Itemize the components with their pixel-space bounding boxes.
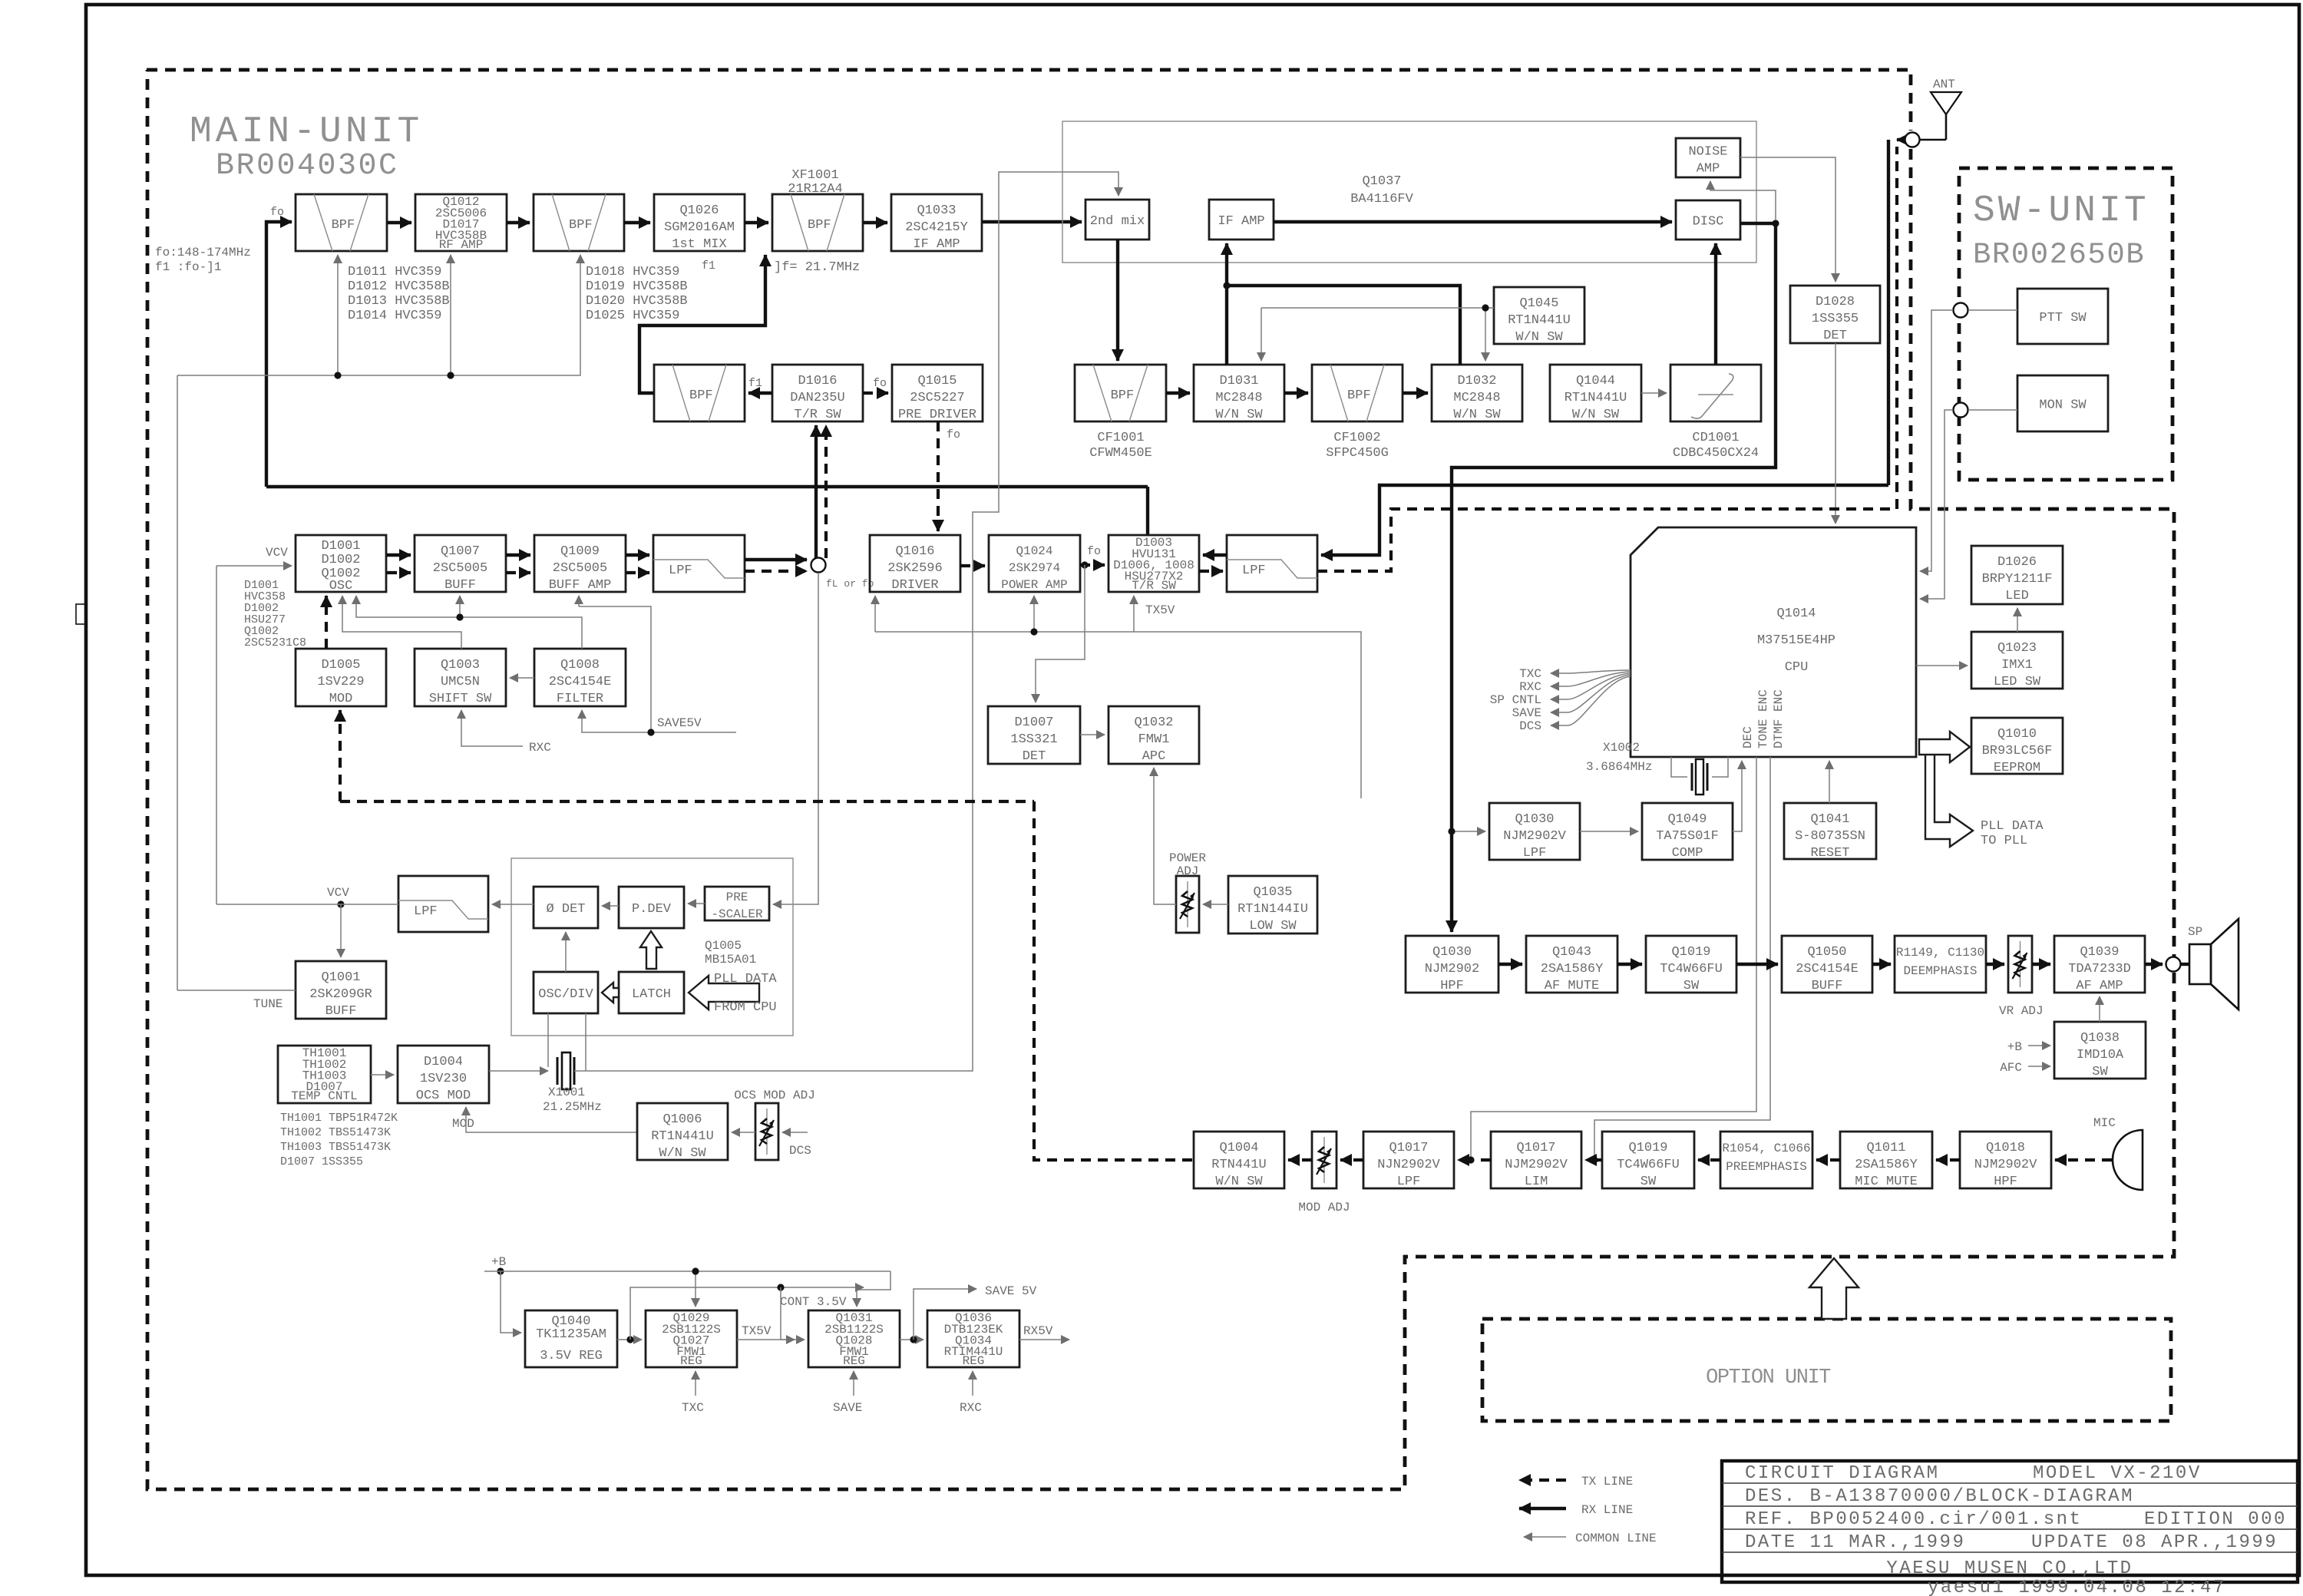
svg-text:AF MUTE: AF MUTE [1545,979,1599,993]
wire IF AMP to DISC [1274,220,1672,223]
junction [1081,561,1088,568]
svg-text:IF AMP: IF AMP [913,237,960,252]
wire ANT RX line [1321,485,1888,555]
wire save5v to Q1009 [578,596,580,606]
svg-text:CFWM450E: CFWM450E [1089,446,1152,461]
svg-text:fo: fo [947,428,960,441]
svg-text:TXC: TXC [1519,667,1541,681]
node [1905,133,1920,147]
svg-text:f1: f1 [748,377,762,390]
svg-text:NJM2902V: NJM2902V [1503,829,1566,844]
svg-text:1SV230: 1SV230 [420,1072,467,1086]
wire ANT down [1887,140,1890,485]
latch [619,972,684,1013]
power amplifier Q1024 [989,535,1080,592]
wire TX5V to Q1024 [1033,596,1035,632]
T/R switch D1003 [1109,535,1199,593]
svg-text:Q1038: Q1038 [2080,1031,2120,1046]
svg-text:fo:148-174MHz: fo:148-174MHz [155,246,251,259]
svg-text:REF. BP0052400.cir/001.snt: REF. BP0052400.cir/001.snt [1745,1509,2082,1530]
svg-text:TC4W66FU: TC4W66FU [1660,962,1723,976]
wire Q1040 to Q1029 [617,1339,642,1340]
svg-text:1SS321: 1SS321 [1010,732,1057,747]
svg-text:2SA1586Y: 2SA1586Y [1855,1158,1918,1172]
svg-text:NJM2902: NJM2902 [1425,962,1479,976]
wire reset to CPU [1829,761,1830,803]
svg-text:YAESU MUSEN CO.,LTD: YAESU MUSEN CO.,LTD [1886,1558,2133,1579]
AF mute Q1043 [1526,936,1617,993]
junction [1772,220,1779,226]
wire Q1023 to D1026 [2017,608,2018,632]
legend TX LINE [1519,1479,1566,1482]
wire PTT to CPU [1920,310,1953,571]
svg-text:CPU: CPU [1785,660,1809,675]
svg-text:SW-UNIT: SW-UNIT [1973,190,2149,232]
svg-text:OCS MOD: OCS MOD [416,1089,471,1103]
svg-text:T/R SW: T/R SW [1132,579,1176,593]
svg-text:DCS: DCS [1519,719,1541,733]
svg-text:DES. B-A13870000/BLOCK-DIAGRAM: DES. B-A13870000/BLOCK-DIAGRAM [1745,1486,2134,1507]
svg-text:IMX1: IMX1 [2001,658,2033,672]
antenna ANT [1919,78,1961,140]
wire tune net [177,255,580,375]
IF amplifier Q1033 [891,194,982,252]
wire D1007 to Q1032 [1080,734,1105,735]
potentiometer MOD ADJ [1312,1132,1337,1188]
band-pass filter BPF2 [534,194,624,251]
svg-text:1st MIX: 1st MIX [672,237,726,252]
svg-text:CONT 3.5V: CONT 3.5V [780,1295,847,1309]
svg-text:HPF: HPF [1994,1175,2017,1189]
svg-text:BPF: BPF [1111,388,1135,403]
svg-text:CD1001: CD1001 [1692,431,1739,445]
wire OSCDIV to phase det [565,932,567,972]
svg-text:f1: f1 [702,259,715,273]
svg-text:BR93LC56F: BR93LC56F [1982,744,2053,758]
svg-text:W/N SW: W/N SW [659,1146,706,1161]
svg-text:R1054, C1066: R1054, C1066 [1722,1142,1810,1155]
svg-text:TX5V: TX5V [1145,603,1175,617]
wire RX line to front end [266,485,1148,488]
wire IF tap to D1031 [1225,286,1228,365]
svg-text:2SC4154E: 2SC4154E [1796,962,1859,976]
wire CONT 3.5V [630,1287,864,1340]
TX regulator Q1029 [646,1310,737,1368]
wire pot to Q1004 [1288,1158,1312,1161]
wire Q1045 control [1261,307,1494,309]
svg-text:LPF: LPF [1523,846,1547,861]
wire DISC output [1740,222,1776,225]
junction [337,900,344,907]
svg-text:MOD: MOD [329,692,353,706]
svg-text:W/N SW: W/N SW [1215,1175,1263,1189]
PTT switch [2017,289,2108,344]
svg-text:MIC MUTE: MIC MUTE [1855,1175,1918,1189]
W/N switch Q1006 [637,1103,728,1161]
svg-text:MODEL VX-210V: MODEL VX-210V [2033,1463,2202,1484]
svg-text:2SK2596: 2SK2596 [887,561,942,576]
svg-text:RX LINE: RX LINE [1581,1503,1633,1517]
svg-text:Q1003: Q1003 [441,658,480,672]
svg-text:-SCALER: -SCALER [711,907,763,921]
wire save5v to Q1007 [459,596,461,617]
legend COMMON LINE [1524,1536,1566,1538]
svg-text:REG: REG [963,1354,985,1368]
svg-text:LPF: LPF [1242,563,1266,578]
svg-text:COMP: COMP [1672,846,1703,861]
svg-text:3.5V REG: 3.5V REG [540,1349,603,1363]
wire LIM to LPF [1458,1158,1491,1161]
wire +B to Q1040 [501,1271,521,1333]
svg-text:BPF: BPF [1347,388,1371,403]
hollow bus PLL data [1925,755,1973,847]
svg-text:SP CNTL: SP CNTL [1490,693,1541,707]
mic HPF Q1018 [1960,1132,2051,1189]
title block [1722,1461,2298,1582]
svg-text:2SC4154E: 2SC4154E [549,675,612,689]
wire Q1031 to Q1036 [900,1339,924,1340]
wire 2nd LO to 2nd mix [586,172,1118,1071]
svg-text:BUFF: BUFF [1812,979,1843,993]
svg-text:D1004: D1004 [424,1055,463,1069]
svg-text:+B: +B [491,1255,506,1269]
crystal X1001 [489,1013,586,1089]
wire SAVE 5V out [914,1289,976,1340]
svg-text:R1149, C1130: R1149, C1130 [1896,946,1984,960]
APC Q1032 [1109,706,1199,764]
shift switch Q1003 [415,649,506,706]
wire BPF4 to Q1026 f1 [639,255,765,393]
wire pot to Q1006 [732,1132,755,1133]
wire PDEV to phase det [602,905,619,907]
speaker SP [2188,919,2239,1009]
svg-text:MON SW: MON SW [2039,398,2087,413]
svg-text:CF1002: CF1002 [1333,431,1380,445]
svg-text:Q1009: Q1009 [560,544,600,559]
wire Q1019 to Q1050 [1736,963,1778,966]
hollow arrow to OPTION UNIT [1809,1258,1859,1319]
wire LPF to pot [1340,1158,1363,1161]
wire CONT to Q1031 [781,1287,805,1340]
svg-text:IF AMP: IF AMP [1218,214,1264,229]
svg-text:VCV: VCV [327,886,349,900]
hollow arrow LATCH to PDEV [640,931,662,969]
svg-text:yaesu1 1999.04.08 12:47: yaesu1 1999.04.08 12:47 [1928,1578,2226,1596]
wire prescaler to PDEV [688,903,705,904]
wire Q1007 to Q1009 RX [506,553,530,557]
buffer Q1007 [415,535,506,593]
svg-text:BPF: BPF [689,388,713,403]
wire SAVE up [853,1371,854,1396]
svg-text:UPDATE 08 APR.,1999: UPDATE 08 APR.,1999 [2031,1532,2278,1553]
wire VR to Q1039 [2032,963,2050,966]
svg-text:LATCH: LATCH [632,987,671,1002]
svg-text:REG: REG [680,1354,702,1368]
svg-text:DEC: DEC [1741,726,1755,748]
svg-text:Q1006: Q1006 [662,1112,702,1127]
wire tune to BPF1 [337,255,339,375]
wire Q1024 to D1003 [1080,563,1105,567]
svg-text:DET: DET [1823,329,1847,343]
junction [1591,1156,1598,1163]
junction [1030,628,1037,635]
node [1954,303,1968,318]
svg-text:RX5V: RX5V [1023,1324,1053,1338]
svg-text:RESET: RESET [1810,846,1849,861]
wire 2nd mix to BPF5 [1116,240,1119,361]
svg-text:Q1030: Q1030 [1515,812,1554,827]
svg-text:PLL DATA: PLL DATA [1981,819,2044,834]
svg-text:Q1015: Q1015 [917,374,957,388]
AF mute switch Q1038 [2054,1022,2146,1079]
svg-text:CDBC450CX24: CDBC450CX24 [1673,446,1759,461]
wire +B to Q1029 [695,1271,696,1307]
svg-text:DEEMPHASIS: DEEMPHASIS [1903,964,1977,978]
LED D1026 [1971,546,2063,604]
svg-text:MAIN-UNIT: MAIN-UNIT [190,111,423,153]
driver Q1016 [870,535,960,593]
svg-text:RXC: RXC [529,741,551,755]
svg-text:TEMP CNTL: TEMP CNTL [291,1089,357,1103]
wire node to prescaler [773,573,818,904]
svg-text:UMC5N: UMC5N [441,675,480,689]
svg-text:TONE ENC: TONE ENC [1756,689,1770,748]
wire f0 input to BPF1 [266,222,292,487]
discriminator CD1001 [1670,365,1761,421]
svg-text:SGM2016AM: SGM2016AM [664,220,735,235]
T/R switch D1016 [772,365,863,422]
svg-text:fo: fo [873,377,887,390]
svg-text:XF1001: XF1001 [791,168,838,183]
svg-text:+B: +B [2007,1040,2022,1054]
svg-text:SFPC450G: SFPC450G [1326,446,1389,461]
svg-text:LOW SW: LOW SW [1249,919,1297,933]
reference OSC/DIV [534,972,598,1013]
svg-text:SAVE: SAVE [833,1401,862,1415]
svg-text:FILTER: FILTER [557,692,603,706]
svg-text:2SK2974: 2SK2974 [1009,561,1060,575]
svg-text:f1 :fo-]1: f1 :fo-]1 [155,260,221,274]
svg-text:EDITION 000: EDITION 000 [2144,1509,2287,1530]
svg-text:W/N SW: W/N SW [1572,408,1620,422]
svg-text:COMMON LINE: COMMON LINE [1575,1532,1657,1545]
crystal filter BPF3 XF1001 [772,194,863,251]
wire DISC audio feed [1452,223,1776,932]
wire MOD dashed horizontal [340,800,1034,803]
svg-text:D1032: D1032 [1457,374,1496,388]
wire D1031 to BPF6 [1284,392,1308,395]
wire deemphasis to VR [1986,963,2004,966]
svg-text:LPF: LPF [669,563,692,578]
svg-text:SP: SP [2188,925,2202,939]
svg-text:CIRCUIT DIAGRAM: CIRCUIT DIAGRAM [1745,1463,1940,1484]
wire TX5V to Q1016 [874,596,876,632]
svg-text:DISC: DISC [1693,215,1724,230]
svg-text:BPF: BPF [332,218,355,233]
junction [1482,304,1489,311]
svg-text:Q1024: Q1024 [1016,544,1052,558]
wire DEC line [1471,757,1756,1160]
svg-text:Q1035: Q1035 [1253,885,1292,900]
wire D1016 RX riser [814,425,818,558]
svg-text:POWER: POWER [1169,851,1206,865]
svg-text:PRE: PRE [726,891,748,904]
wire D1028 to CPU [1835,343,1836,524]
W/N switch D1032 [1432,365,1522,422]
reference modulator D1004 [398,1046,489,1103]
wire TX line to ANT [1317,147,1897,571]
wire D1003 to LPF2 TX [1199,570,1223,573]
svg-text:DTMF ENC: DTMF ENC [1772,689,1786,748]
limiter Q1017 [1491,1132,1581,1189]
reset IC Q1041 [1784,803,1876,861]
svg-text:TDA7233D: TDA7233D [2068,962,2131,976]
wire D1016 to BPF4 [748,392,772,395]
VCO oscillator Q1002 [296,535,386,593]
wire fo node to D1007 [1036,565,1085,702]
IF amplifier BA4116FV [1209,200,1274,240]
svg-text:MB15A01: MB15A01 [705,953,756,967]
svg-text:APC: APC [1142,749,1166,764]
svg-text:3.6864MHz: 3.6864MHz [1586,760,1652,774]
svg-text:TO PLL: TO PLL [1981,834,2027,848]
svg-text:Q1001: Q1001 [321,970,360,985]
junction [497,1267,504,1274]
svg-text:Q1004: Q1004 [1219,1141,1258,1155]
svg-text:W/N SW: W/N SW [1515,330,1563,345]
svg-text:D1007 1SS355: D1007 1SS355 [280,1155,363,1168]
wire BPF2 to Q1026 [624,221,650,224]
ceramic filter BPF6 CF1002 [1312,365,1403,421]
audio switch Q1019 [1646,936,1736,993]
wire Q1018 to Q1011 [1936,1158,1960,1161]
pre driver Q1015 [892,365,983,422]
3.5V regulator Q1040 [525,1310,617,1367]
svg-text:S-80735SN: S-80735SN [1795,829,1865,844]
wire Q1011 to preemphasis [1816,1158,1840,1161]
wire IF tap to D1032 [1227,286,1460,365]
svg-text:NJN2902V: NJN2902V [1377,1158,1440,1172]
svg-text:D1026: D1026 [1997,555,2037,570]
low-pass filter LPF2 [1227,535,1317,592]
noise amplifier [1676,138,1740,177]
wire VCV vertical [216,566,217,904]
SW-UNIT dashed border [1959,168,2172,480]
wire D1003 top riser [1146,487,1149,535]
svg-text:LIM: LIM [1525,1175,1548,1189]
band-pass filter BPF1 [296,194,387,251]
wire audio tap to Q1030 [1452,831,1485,832]
filter Q1008 [534,649,626,706]
svg-text:MIC: MIC [2093,1116,2116,1130]
svg-text:Q1018: Q1018 [1986,1141,2025,1155]
svg-text:RT1N441U: RT1N441U [1565,391,1627,405]
wire Q1026 to BPF3 [745,221,768,224]
RF amplifier Q1012 [415,194,507,252]
hollow arrow LATCH to OSCDIV [602,983,619,1003]
mic switch Q1019 [1602,1132,1694,1189]
wire TX5V to D1003 [1133,596,1135,632]
W/N switch Q1044 [1550,365,1641,422]
AF amplifier Q1039 [2054,936,2145,993]
wire +B to Q1038 [2028,1045,2050,1046]
svg-text:21R12A4: 21R12A4 [788,182,842,197]
wire Q1035 to pot [1203,904,1228,905]
monitor switch MON SW [2017,375,2108,431]
band-pass filter BPF4 [654,365,745,421]
wire TX audio dashed vertical [1034,801,1194,1160]
ceramic filter BPF5 CF1001 [1075,365,1166,421]
W/N switch Q1004 [1194,1132,1284,1189]
wire IF tap to IF AMP [1225,243,1228,286]
svg-text:Q1019: Q1019 [1671,945,1710,960]
wire Q1008 to Q1003 [510,677,534,679]
wire noise amp tap [1710,181,1776,220]
svg-text:Q1037: Q1037 [1362,174,1401,189]
wire Q1039 to speaker [2145,963,2163,966]
svg-text:Q1049: Q1049 [1667,812,1707,827]
svg-text:BR002650B: BR002650B [1973,238,2145,272]
wire TONE line [1594,757,1770,1160]
svg-text:BUFF AMP: BUFF AMP [549,578,612,593]
preemphasis R1054 C1066 [1720,1132,1812,1188]
svg-text:RT1N441U: RT1N441U [651,1129,714,1144]
wire Q1038 to Q1039 [2099,996,2100,1022]
buffer amplifier Q1009 [534,535,626,593]
svg-text:Q1043: Q1043 [1552,945,1591,960]
hollow bus CPU to EEPROM [1919,732,1970,762]
svg-text:RT1N441U: RT1N441U [1508,313,1571,328]
junction [1223,282,1230,289]
svg-text:LPF: LPF [414,904,438,919]
svg-text:PRE DRIVER: PRE DRIVER [898,408,976,422]
svg-text:Q1033: Q1033 [917,203,956,218]
svg-text:OSC/DIV: OSC/DIV [538,987,593,1002]
wire BPF6 to D1032 [1403,392,1428,395]
svg-text:BA4116FV: BA4116FV [1350,192,1413,207]
MAIN-UNIT dashed border [147,70,1911,131]
wire BPF3 to Q1033 [863,221,887,224]
audio buffer Q1050 [1782,936,1872,993]
wire TX5V out [737,1339,795,1340]
svg-text:HPF: HPF [1440,979,1464,993]
prescaler [705,887,769,921]
svg-text:2SC5005: 2SC5005 [433,561,487,576]
svg-text:Ø DET: Ø DET [546,902,585,917]
wire LPF1 to node RX [745,558,807,561]
wire Q1009 to LPF1 TX [626,571,649,574]
APC detector D1007 [988,706,1080,764]
wire Q1015 fo down to Q1016 [937,421,940,531]
wire RXC to Q1003 [461,710,523,746]
svg-text:Q1007: Q1007 [441,544,480,559]
svg-text:POWER AMP: POWER AMP [1001,578,1067,592]
wire VCV to Q1001 [340,904,342,957]
modulator D1005 [296,649,386,706]
svg-text:BUFF: BUFF [444,578,476,593]
svg-text:Q1045: Q1045 [1519,296,1558,311]
junction [777,1284,784,1290]
svg-text:Q1023: Q1023 [1997,641,2037,656]
svg-text:TK11235AM: TK11235AM [536,1327,606,1342]
wire node to speaker [2181,963,2189,966]
svg-text:fo: fo [1087,545,1101,558]
wire pot to APC [1154,768,1176,904]
wire LPF to VCV line [216,904,398,905]
svg-text:]f= 21.7MHz: ]f= 21.7MHz [774,260,860,275]
junction [447,372,454,378]
svg-text:OPTION UNIT: OPTION UNIT [1706,1366,1831,1389]
